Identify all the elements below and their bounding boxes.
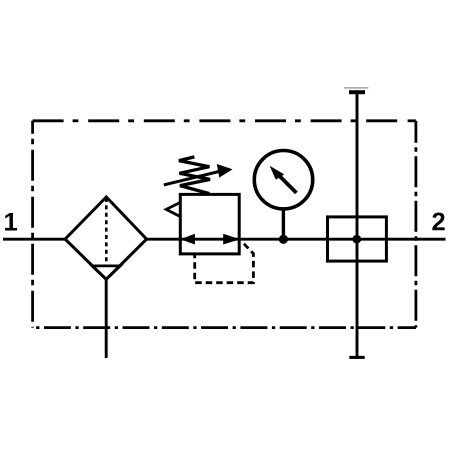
wire: condensate drain line xyxy=(105,280,108,359)
enclosure frame bottom edge (dash-dot) xyxy=(33,326,416,329)
filter F1 diamond body xyxy=(65,197,147,279)
port label 1 xyxy=(5,213,17,231)
branch riser top thin line xyxy=(344,87,368,89)
regulator R1 adjustment arrow shaft xyxy=(164,171,221,185)
distribution block body xyxy=(328,217,387,261)
port label 2 xyxy=(432,212,444,230)
enclosure frame top edge (dash-dot) xyxy=(33,119,404,122)
wire: main flow line from filter to port 2 xyxy=(147,238,446,241)
gauge G1 dial circle xyxy=(254,151,312,209)
regulator R1 body square xyxy=(180,194,239,254)
enclosure frame left edge (dash-dot) xyxy=(31,121,34,328)
filter F1 water separator triangle xyxy=(92,266,120,280)
branch riser top cap bar xyxy=(349,90,365,94)
branch riser bottom cap bar xyxy=(349,356,364,359)
regulator R1 flow arrow left xyxy=(180,234,195,245)
regulator R1 pilot feedback line (dashed) xyxy=(195,242,254,283)
gauge G1 needle head xyxy=(270,166,285,180)
enclosure frame right edge (dash-dot) xyxy=(414,121,417,328)
filter F1 element (dashed center line) xyxy=(105,198,108,265)
gauge G1 needle shaft xyxy=(280,176,297,193)
wire: branch riser vertical line xyxy=(356,92,359,357)
regulator R1 relief vent triangle xyxy=(166,203,179,217)
wire: gauge stem xyxy=(282,208,285,239)
regulator R1 flow arrow right xyxy=(223,234,240,245)
regulator R1 adjustment arrow head xyxy=(217,164,233,178)
wire: inlet flow line from port 1 to filter xyxy=(3,238,65,241)
regulator R1 spring (zigzag) xyxy=(179,157,210,194)
node: gauge junction dot xyxy=(279,235,288,244)
node: distribution block center dot xyxy=(352,235,361,244)
